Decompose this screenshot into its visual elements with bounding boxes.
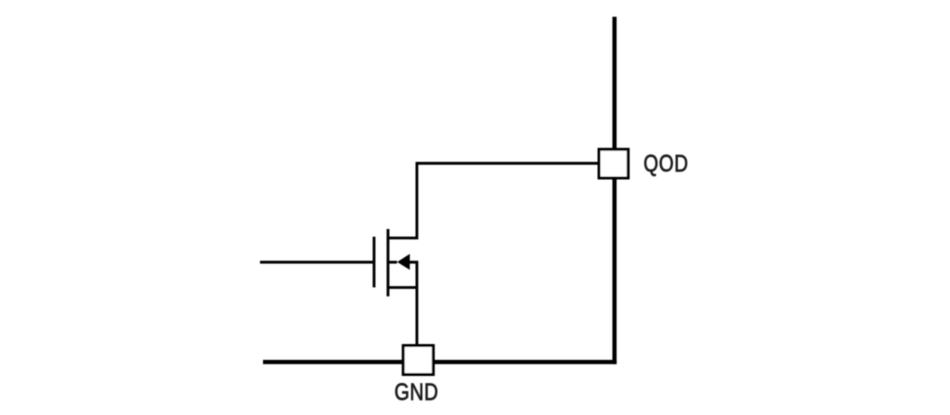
svg-text:QOD: QOD (644, 150, 689, 178)
svg-text:GND: GND (394, 378, 438, 406)
